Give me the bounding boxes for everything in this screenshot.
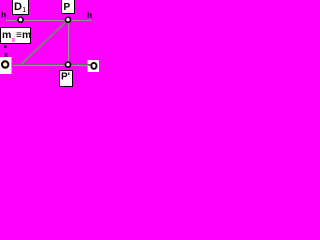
svg-text:h: h [1, 10, 6, 20]
label box O (bottom left) [0, 57, 12, 74]
label box O (bottom right, white backing) [88, 60, 99, 72]
svg-text:m: m [2, 29, 11, 41]
wire: diagonal line m [21, 20, 69, 65]
svg-text:m: m [22, 29, 31, 41]
svg-text:x: x [12, 37, 16, 44]
svg-text:D: D [14, 1, 22, 13]
svg-text:h: h [87, 10, 92, 20]
background [0, 0, 99, 95]
wire: vertical line PP' [67, 20, 69, 65]
svg-text:P: P [64, 2, 71, 13]
svg-text:P': P' [61, 72, 70, 83]
wire: bottom horizontal line [13, 64, 91, 66]
node P point on top line [66, 17, 71, 22]
label box D1 [13, 0, 29, 15]
label box P [62, 0, 75, 14]
svg-text:1: 1 [22, 7, 26, 14]
wire: top horizontal line h (dark top row, light bottom row) [6, 19, 91, 21]
label O (bottom right ring) [91, 63, 96, 69]
node D1 point on top line [18, 17, 23, 22]
tiny mark above O [4, 46, 7, 49]
label box P' (bottom) [60, 71, 73, 87]
node P' point on bottom line [66, 62, 71, 67]
label box m_x = m [1, 28, 32, 44]
